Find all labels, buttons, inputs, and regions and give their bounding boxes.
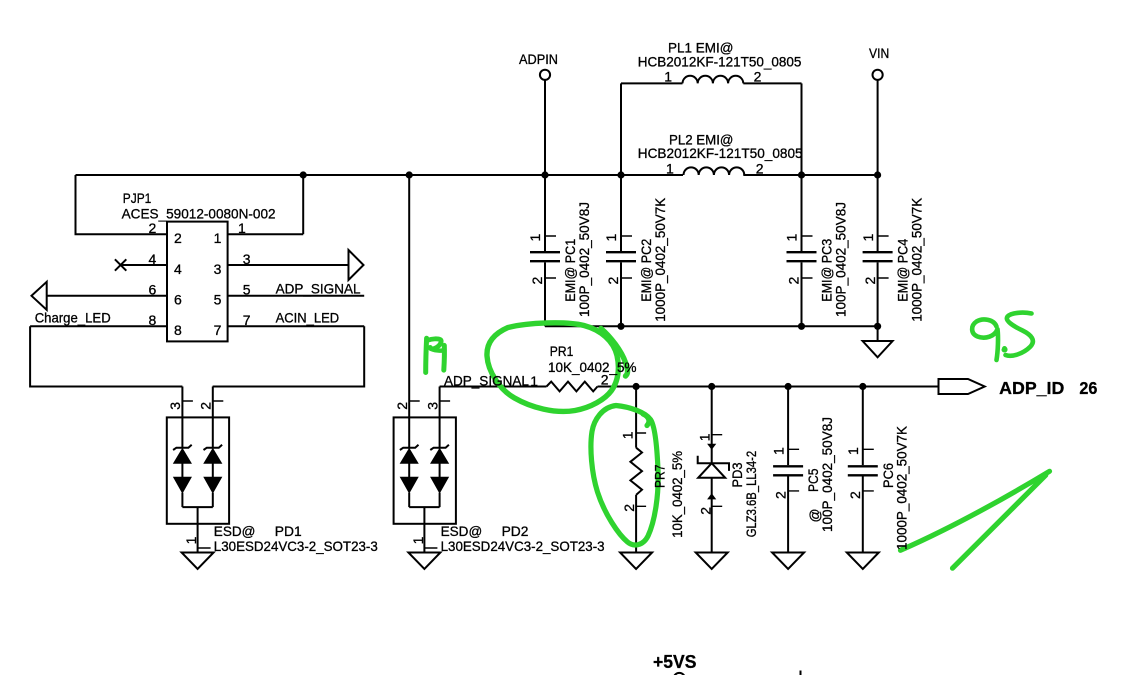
svg-text:ESD@: ESD@: [214, 524, 256, 539]
svg-text:3: 3: [243, 251, 251, 267]
svg-text:1: 1: [697, 433, 713, 441]
svg-text:100P_0402_50V8J: 100P_0402_50V8J: [833, 202, 848, 317]
svg-text:HCB2012KF-121T50_0805: HCB2012KF-121T50_0805: [638, 54, 802, 69]
svg-text:10K_0402_5%: 10K_0402_5%: [548, 360, 637, 375]
svg-text:1: 1: [666, 160, 674, 176]
svg-text:7: 7: [243, 312, 251, 328]
svg-text:ADP_SIGNAL: ADP_SIGNAL: [276, 281, 361, 296]
svg-text:7: 7: [214, 322, 222, 338]
svg-text:PC6: PC6: [881, 463, 896, 488]
svg-text:1000P_0402_50V7K: 1000P_0402_50V7K: [895, 425, 910, 550]
svg-text:ADP_SIGNAL: ADP_SIGNAL: [444, 374, 529, 389]
svg-text:3: 3: [214, 261, 222, 277]
svg-text:ADP_ID: ADP_ID: [999, 378, 1064, 398]
svg-text:2: 2: [786, 277, 802, 285]
svg-text:2: 2: [754, 69, 762, 85]
svg-text:EMI@ PC3: EMI@ PC3: [820, 239, 835, 302]
svg-text:6: 6: [149, 282, 157, 298]
svg-text:1000P_0402_50V7K: 1000P_0402_50V7K: [653, 197, 668, 322]
svg-text:8: 8: [174, 322, 182, 338]
svg-text:1000P_0402_50V7K: 1000P_0402_50V7K: [909, 197, 924, 322]
svg-text:1: 1: [770, 447, 786, 455]
svg-text:100P_0402_50V8J: 100P_0402_50V8J: [577, 202, 592, 317]
svg-text:2: 2: [621, 504, 637, 512]
svg-text:1: 1: [214, 230, 222, 246]
svg-text:HCB2012KF-121T50_0805: HCB2012KF-121T50_0805: [638, 146, 803, 161]
svg-text:4: 4: [174, 261, 182, 277]
svg-text:PL1 EMI@: PL1 EMI@: [668, 40, 733, 55]
svg-text:PJP1: PJP1: [123, 191, 152, 206]
svg-text:PD1: PD1: [275, 524, 302, 539]
svg-text:2: 2: [862, 277, 878, 285]
svg-text:1: 1: [664, 69, 672, 85]
svg-text:ACES_59012-0080N-002: ACES_59012-0080N-002: [122, 206, 276, 221]
svg-text:L30ESD24VC3-2_SOT23-3: L30ESD24VC3-2_SOT23-3: [441, 539, 605, 554]
svg-text:ESD@: ESD@: [441, 524, 483, 539]
svg-text:GLZ3.6B_LL34-2: GLZ3.6B_LL34-2: [744, 451, 759, 538]
svg-text:ADPIN: ADPIN: [519, 52, 558, 67]
svg-text:1: 1: [238, 220, 246, 236]
svg-text:2: 2: [847, 491, 863, 499]
svg-text:2: 2: [174, 230, 182, 246]
svg-text:8: 8: [149, 312, 157, 328]
svg-text:PR1: PR1: [550, 344, 574, 359]
svg-text:EMI@ PC1: EMI@ PC1: [563, 239, 578, 302]
svg-text:2: 2: [198, 402, 214, 410]
svg-text:5: 5: [243, 282, 251, 298]
svg-text:10K_0402_5%: 10K_0402_5%: [670, 451, 685, 538]
svg-text:1: 1: [530, 373, 538, 389]
svg-text:1: 1: [183, 536, 199, 544]
svg-text:Charge_LED: Charge_LED: [35, 311, 111, 326]
svg-text:2: 2: [529, 277, 545, 285]
svg-text:1: 1: [860, 234, 876, 242]
svg-text:5: 5: [214, 292, 222, 308]
svg-text:VIN: VIN: [869, 46, 889, 61]
svg-text:1: 1: [620, 431, 636, 439]
svg-text:2: 2: [772, 491, 788, 499]
svg-text:26: 26: [1079, 378, 1097, 398]
svg-text:L30ESD24VC3-2_SOT23-3: L30ESD24VC3-2_SOT23-3: [214, 539, 378, 554]
svg-text:2: 2: [756, 160, 764, 176]
svg-text:1: 1: [527, 234, 543, 242]
svg-text:@: @: [807, 508, 822, 522]
svg-text:PL2 EMI@: PL2 EMI@: [669, 132, 733, 147]
svg-text:ACIN_LED: ACIN_LED: [276, 310, 340, 325]
svg-text:1: 1: [784, 234, 800, 242]
svg-text:3: 3: [424, 402, 440, 410]
svg-text:2: 2: [149, 220, 157, 236]
svg-text:PR7: PR7: [652, 465, 667, 489]
svg-text:1: 1: [410, 536, 426, 544]
svg-text:2: 2: [698, 507, 714, 515]
svg-text:EMI@ PC4: EMI@ PC4: [896, 239, 911, 302]
svg-text:2: 2: [394, 402, 410, 410]
svg-text:PC5: PC5: [806, 468, 821, 492]
svg-text:3: 3: [167, 402, 183, 410]
svg-text:1: 1: [845, 447, 861, 455]
svg-text:+5VS: +5VS: [653, 652, 696, 672]
svg-text:4: 4: [149, 251, 157, 267]
svg-text:1: 1: [603, 234, 619, 242]
svg-text:PD2: PD2: [502, 524, 529, 539]
svg-text:6: 6: [174, 292, 182, 308]
svg-text:EMI@ PC2: EMI@ PC2: [639, 239, 654, 302]
svg-text:2: 2: [605, 277, 621, 285]
svg-text:PD3: PD3: [730, 462, 745, 487]
